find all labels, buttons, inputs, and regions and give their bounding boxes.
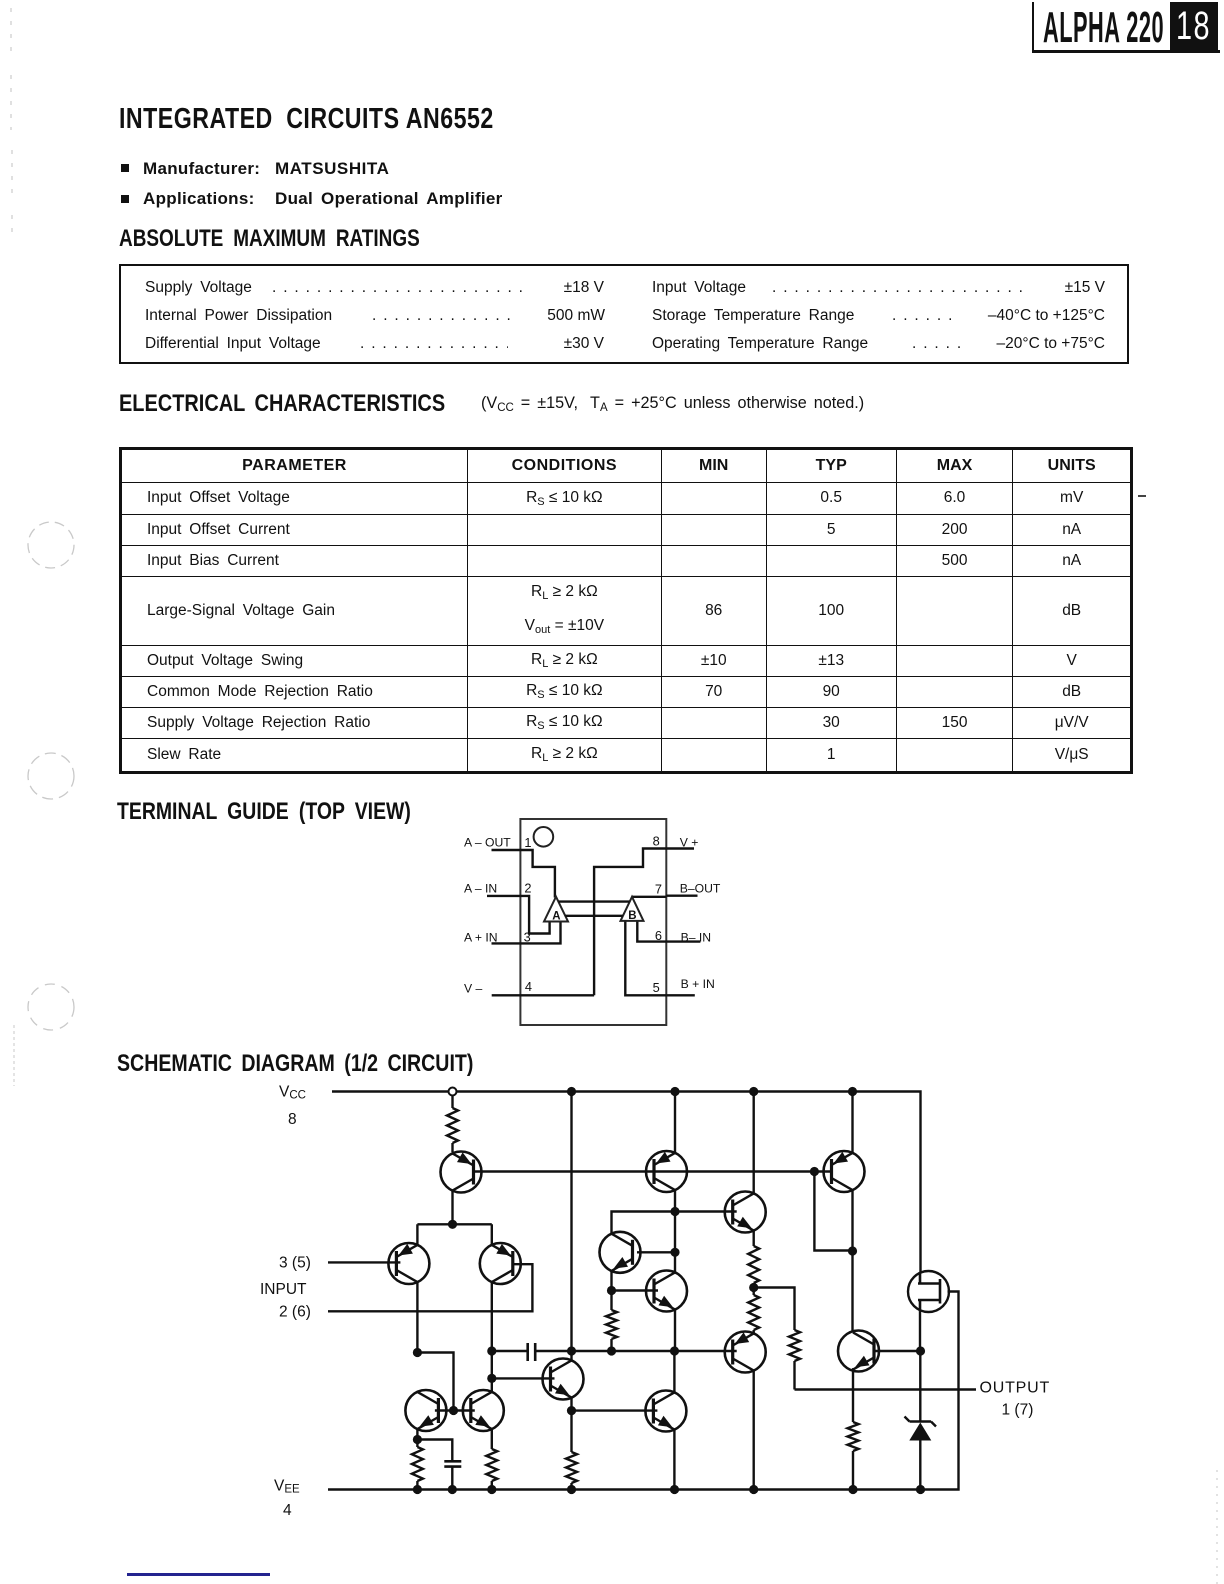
wire Q14 base — [492, 1377, 555, 1379]
wire Q14 emitter — [570, 1398, 572, 1452]
wire Q7 collector down — [674, 1190, 676, 1211]
svg-text:OUTPUT: OUTPUT — [980, 1380, 1051, 1397]
wire C1 right lead to bus — [535, 1350, 737, 1352]
svg-text:4: 4 — [525, 979, 532, 994]
junction bias bus / Q11 diode link — [810, 1167, 819, 1176]
junction bus / R5 — [607, 1346, 616, 1355]
svg-text:2: 2 — [524, 881, 531, 896]
transistor Q14 (NPN second stage) — [543, 1359, 584, 1400]
wire Q8-Q9 base link — [612, 1289, 659, 1291]
wire Q7 collector to Q8 — [612, 1212, 676, 1234]
pin 2 lead (A-IN) — [487, 895, 520, 897]
wire pin2 to A inverting input — [520, 896, 549, 934]
wire Q11 emitter to rail — [851, 1092, 853, 1153]
bullet rows — [121, 164, 130, 173]
ratings box — [119, 264, 1129, 364]
wire Q15 collector — [673, 1351, 675, 1392]
wire Q6 emitter — [491, 1429, 493, 1449]
wire Q14 collector — [570, 1351, 572, 1360]
junction VEE / zener anode — [916, 1485, 925, 1494]
wire Q4 base to bias bus — [474, 1170, 832, 1172]
svg-text:8: 8 — [288, 1111, 297, 1128]
svg-text:VEE: VEE — [274, 1478, 300, 1496]
wire diff-pair tail — [417, 1224, 491, 1245]
zener diode D1 — [905, 1417, 937, 1441]
junction FET source / Q12 base / zener — [916, 1346, 925, 1355]
transistor Q12 (NPN output driver) — [838, 1331, 879, 1372]
svg-text:8: 8 — [653, 834, 660, 849]
junction mirror base node — [449, 1406, 458, 1415]
svg-text:B– IN: B– IN — [681, 931, 711, 945]
wire zener to VEE — [919, 1441, 921, 1490]
junction VEE / Q13 collector — [749, 1485, 758, 1494]
transistor Q9 (NPN) — [646, 1271, 687, 1312]
svg-text:3 (5): 3 (5) — [279, 1255, 311, 1272]
op-amp B triangle — [621, 897, 644, 921]
svg-text:B: B — [628, 910, 636, 922]
wire Q11 collector down — [851, 1190, 853, 1251]
junction VEE / C2 — [448, 1485, 457, 1494]
pin 1 lead (A-OUT) — [492, 849, 521, 851]
svg-text:7: 7 — [655, 882, 662, 897]
wire C1 left lead — [492, 1350, 528, 1352]
wire C2 to VEE — [451, 1467, 453, 1490]
junction Q8 emitter / Q9 base — [607, 1286, 616, 1295]
pin 3 lead (A+IN) — [492, 942, 521, 944]
transistor Q15 (NPN) — [645, 1391, 686, 1432]
wire Q8 emitter — [610, 1271, 612, 1310]
junction Vcc rail / Q11 emitter — [848, 1087, 857, 1096]
svg-text:A: A — [552, 911, 560, 923]
pin 6 lead (B-IN) — [666, 940, 700, 942]
junction VEE / Q15 emitter — [670, 1485, 679, 1494]
wire Q12 base — [874, 1350, 921, 1352]
wire Q8 base — [637, 1251, 675, 1253]
TERMINAL GUIDE heading — [117, 798, 411, 826]
svg-text:A + IN: A + IN — [464, 931, 498, 945]
junction bus / Q15 collector — [670, 1346, 679, 1355]
wire Q10 base — [675, 1210, 737, 1212]
junction ring at R1/Vcc rail — [449, 1088, 457, 1096]
wire Q9 emitter to bus — [674, 1310, 676, 1351]
junction second-stage base node — [487, 1374, 496, 1383]
pin 8 lead (V+) — [666, 847, 694, 849]
wire Q5 collector-base link — [417, 1353, 453, 1411]
junction VEE / R9 — [487, 1485, 496, 1494]
resistor R1 (bias, from Vcc rail) — [451, 1092, 453, 1153]
junction Vcc rail / sense line — [567, 1087, 576, 1096]
svg-text:4: 4 — [283, 1502, 292, 1519]
svg-text:A – IN: A – IN — [464, 882, 497, 896]
svg-text:3: 3 — [524, 930, 531, 945]
title — [119, 103, 494, 136]
wire Q10 emitter — [753, 1231, 755, 1246]
junction Vcc rail / Q7 emitter — [670, 1087, 679, 1096]
wire Q5 emitter — [416, 1429, 418, 1447]
wire R3 to Q13 — [753, 1330, 755, 1333]
transistor Q16 (output FET) — [908, 1271, 949, 1312]
svg-text:V +: V + — [680, 836, 699, 850]
junction Q7 collector node — [670, 1207, 679, 1216]
transistor Q11 (PNP mirror, diode-connected) — [824, 1151, 865, 1192]
pin 4 lead (V-) — [492, 994, 521, 996]
junction Q14 emitter node — [567, 1406, 576, 1415]
wire Q5-Q6 base link — [435, 1409, 475, 1411]
wire FET source down — [919, 1311, 921, 1351]
transistor Q3 (PNP input, non-inverting side) — [480, 1243, 521, 1284]
transistor Q10 (NPN current source) — [725, 1192, 766, 1233]
wire pin1 to op-amp A output — [520, 850, 555, 898]
junction rail / bias line — [671, 1087, 679, 1095]
resistor R7 (Q12 emitter to VEE) — [848, 1422, 859, 1490]
pin-1 index circle — [534, 827, 554, 847]
wire A-to-B bus upper — [559, 900, 630, 902]
terminal guide: IC body outline — [520, 819, 666, 1025]
junction R2/R3 node — [749, 1283, 758, 1292]
resistor R10 (Q14 emitter to VEE) — [566, 1452, 577, 1490]
wire Q12 collector chain — [851, 1251, 853, 1333]
junction Q2 collector / Q5 — [413, 1348, 422, 1357]
transistor Q2 (PNP input, inverting side) — [388, 1243, 429, 1284]
svg-text:B–OUT: B–OUT — [680, 882, 721, 896]
junction VEE / R8 — [413, 1485, 422, 1494]
wire tap to output resistor — [754, 1288, 795, 1331]
page footer rule — [127, 1573, 270, 1576]
transistor Q7 (PNP bias, diode-connected) — [646, 1151, 687, 1192]
svg-text:INPUT: INPUT — [260, 1281, 307, 1298]
pin 5 lead (B+IN) — [666, 994, 695, 996]
svg-text:V –: V – — [464, 982, 483, 996]
wire to capacitor C2 — [417, 1440, 452, 1462]
junction VEE / R10 — [567, 1485, 576, 1494]
svg-text:6: 6 — [655, 928, 662, 943]
wire pin7 to op-amp B output — [632, 896, 666, 898]
wire input 2(6) to Q3 base — [328, 1264, 532, 1311]
wire pin3 to A non-inverting input — [520, 922, 560, 944]
wire pin8 internal step — [594, 849, 666, 996]
wire Q7 emitter to rail — [674, 1092, 676, 1153]
ABSOLUTE MAXIMUM RATINGS heading — [119, 225, 420, 253]
resistor R2 — [748, 1246, 759, 1283]
wire Q11 diode link — [814, 1172, 852, 1251]
resistor R8 (Q5 emitter to VEE) — [412, 1447, 423, 1490]
wire A-to-B bus lower — [565, 915, 623, 917]
wire Q10 collector to rail — [753, 1092, 755, 1194]
wire VEE rail — [328, 1292, 959, 1490]
resistor R6 (to output node) — [789, 1330, 800, 1390]
wire zener stem upper — [919, 1351, 921, 1421]
junction Q11 collector / Q12 — [848, 1246, 857, 1255]
svg-text:A – OUT: A – OUT — [464, 836, 511, 850]
wire Vcc rail — [332, 1092, 921, 1273]
wire Q3 collector chain — [491, 1282, 493, 1392]
junction Q5 emitter node — [413, 1435, 422, 1444]
junction Q3 collector / C1 — [487, 1346, 496, 1355]
resistor R9 (Q6 emitter to VEE) — [486, 1449, 497, 1490]
wire Q12 emitter — [852, 1368, 854, 1422]
wire OUTPUT line — [795, 1388, 977, 1390]
header tab: ALPHA 220 / 18 — [1032, 2, 1220, 53]
wire Q14-Q15 base link — [572, 1409, 658, 1411]
junction VEE / R7 — [848, 1485, 857, 1494]
wire Q15 emitter — [673, 1430, 675, 1490]
svg-text:VCC: VCC — [279, 1084, 306, 1102]
characteristics table — [119, 447, 1133, 774]
svg-text:1 (7): 1 (7) — [1002, 1402, 1034, 1419]
wire pin6 to B inverting input — [637, 921, 666, 942]
junction Vcc rail / Q10 collector — [749, 1087, 758, 1096]
wire pin5 to B non-inverting input — [625, 921, 666, 995]
pin 7 lead (B-OUT) — [666, 895, 697, 897]
svg-text:1: 1 — [524, 835, 531, 850]
transistor Q6 (NPN mirror output) — [463, 1390, 504, 1431]
transistor Q13 (PNP) — [725, 1332, 766, 1373]
wire Vcc sense line — [570, 1092, 572, 1352]
capacitor C2 (emitter bypass) — [444, 1461, 461, 1466]
wire Q9 collector chain — [674, 1212, 676, 1273]
ELECTRICAL CHARACTERISTICS heading — [119, 390, 445, 418]
SCHEMATIC heading — [117, 1050, 473, 1078]
transistor Q8 (NPN) — [600, 1232, 641, 1273]
wire Q4 collector to diff-pair tail — [451, 1191, 453, 1225]
op-amp A triangle — [544, 897, 568, 922]
capacitor C1 (Miller compensation) — [528, 1343, 536, 1361]
junction tail node — [448, 1220, 457, 1229]
transistor Q4 (PNP tail current source) — [441, 1152, 482, 1193]
resistor R5 (Q8 emitter to bus) — [606, 1310, 617, 1351]
junction bus / Q14 collector — [567, 1346, 576, 1355]
svg-text:5: 5 — [653, 980, 660, 995]
wire Q13 collector to VEE — [753, 1371, 755, 1490]
wire Q2 collector down — [416, 1282, 418, 1352]
junction Q8 base / Q9 collector node — [670, 1248, 679, 1257]
svg-text:2 (6): 2 (6) — [279, 1304, 311, 1321]
transistor Q5 (NPN mirror, diode-connected) — [405, 1390, 446, 1431]
svg-text:B + IN: B + IN — [681, 977, 715, 991]
resistor R3 — [753, 1283, 755, 1295]
wire pin4 V- internal — [520, 994, 594, 996]
wire input 3(5) to Q2 base — [328, 1261, 400, 1263]
